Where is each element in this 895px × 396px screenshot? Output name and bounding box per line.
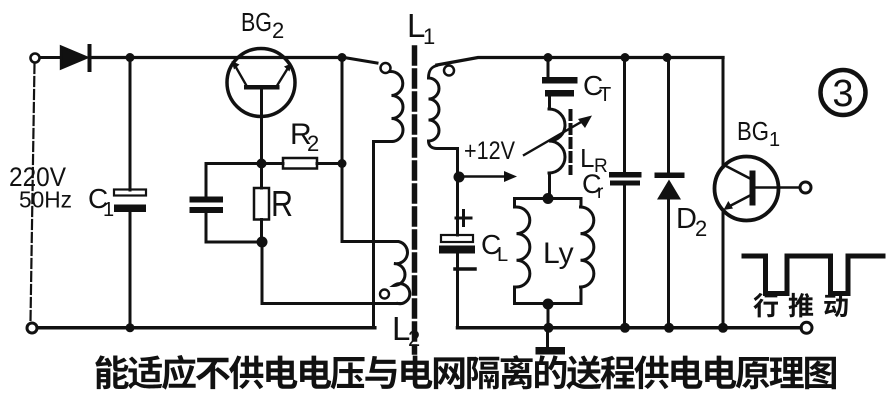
svg-text:D: D [676,203,697,235]
transformer L2 feedback winding [342,242,410,304]
polarity minus [455,267,475,271]
waveform horizontal drive pulses [744,256,883,294]
wire top rail left [91,56,344,59]
svg-text:3: 3 [832,73,853,115]
transistor BG2 [227,49,295,117]
inductor LR variable [524,109,592,199]
label R2 [290,118,319,156]
capacitor base bypass [190,164,263,243]
svg-text:BG: BG [737,116,769,146]
node junction [664,323,674,333]
label C1 [88,183,114,221]
capacitor CL [439,177,475,328]
polarity plus [456,211,471,226]
node junction [620,323,630,333]
wire bottom rail left [38,326,375,330]
node junction Ly bottom [543,299,554,310]
capacitor C1 [114,59,146,326]
node junction [257,237,268,248]
resistor R [254,164,269,243]
deflection coil Ly [515,199,594,304]
svg-text:2: 2 [272,18,284,43]
label drive text [753,293,847,317]
node junction [621,53,630,62]
wire BG1 collector-emitter [722,58,725,328]
terminal output bottom right [801,322,812,333]
node junction R2 right [338,53,347,62]
label BG2 [241,7,284,43]
resistor R2 [283,158,317,169]
transistor BG1 [715,157,812,221]
capacitor Cr [609,59,642,328]
wire top rail right [437,58,723,66]
label Cr [582,169,604,203]
svg-text:r: r [597,182,604,203]
diode D2 [655,59,685,328]
svg-text:2: 2 [408,326,420,351]
svg-text:2: 2 [307,131,319,156]
label D2 [676,203,707,241]
label L1 [407,7,435,49]
svg-text:BG: BG [241,7,272,37]
node junction [338,159,347,168]
svg-text:1: 1 [103,199,114,221]
wire mains left dashed [31,64,35,321]
wire BG2 base [260,90,263,164]
node junction [126,53,135,62]
svg-text:+12V: +12V [464,137,515,165]
node junction [126,323,135,332]
svg-text:T: T [599,84,611,106]
figure number 3 [821,70,866,115]
wire base return to L2 [262,242,399,304]
terminal mains bottom-left [27,323,37,333]
wire [41,56,61,59]
node base junction [257,159,267,169]
wire [317,162,342,165]
svg-text:1: 1 [423,24,435,49]
transformer secondary winding [429,66,458,178]
transformer core [412,48,418,352]
label CT [583,70,611,106]
wire primary bottom return [374,142,392,328]
svg-text:50Hz: 50Hz [19,187,72,213]
wire bottom rail right [458,326,802,330]
label L2 [392,310,420,351]
wire +12V arrow [461,171,517,182]
label CL [481,229,508,266]
node junction [663,53,672,62]
svg-text:2: 2 [695,216,707,241]
capacitor CT [542,59,578,109]
svg-text:L: L [497,244,508,266]
svg-text:Ly: Ly [543,237,574,270]
svg-text:R: R [271,183,293,224]
svg-text:1: 1 [769,129,780,151]
diode D1 [61,44,92,72]
wire collector to feedback [341,58,344,242]
node junction [454,172,465,183]
label LR [580,143,608,177]
node junction [544,53,553,62]
wire Ly to rail [547,304,550,328]
caption text [95,355,836,390]
wire base row [206,162,283,165]
transformer L1 primary winding [344,58,403,142]
node junction [544,323,554,333]
node junction [718,323,728,333]
ground [536,331,566,355]
label BG1 [737,116,780,151]
terminal mains top-left [31,54,40,63]
node junction Ly top [543,193,554,204]
